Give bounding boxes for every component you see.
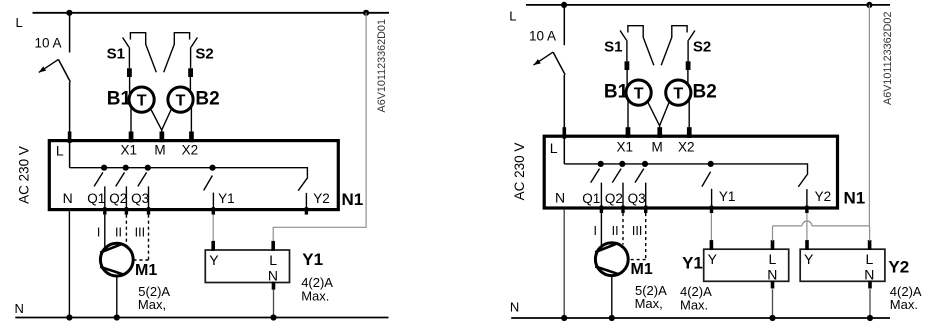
relay contact Y1 blade (right) [702, 172, 711, 187]
relay contact Q2 fixed (right) [622, 183, 624, 208]
node L-switch junction (right) [561, 2, 567, 8]
wire N of N1 to N rail (left) [68, 211, 70, 317]
wire B1 to M [648, 102, 660, 129]
relay contact Q3 blade (left) [138, 172, 147, 186]
svg-text:N: N [268, 267, 278, 283]
wire actuator Y1 N to N rail (left) [273, 289, 275, 318]
svg-text:A6V101123362D01: A6V101123362D01 [376, 19, 388, 112]
relay contact Q1 blade (left) [94, 172, 103, 186]
node Q3 bus junction (right) [642, 161, 648, 167]
svg-text:Y1: Y1 [719, 189, 736, 204]
svg-text:S2: S2 [693, 39, 711, 56]
terminal Q3 (left) [147, 207, 150, 214]
wire B2 to X2 [190, 106, 192, 133]
svg-text:Y1: Y1 [302, 250, 323, 269]
svg-text:L: L [509, 8, 516, 23]
svg-text:M1: M1 [631, 261, 653, 278]
node N-N1 junction (left) [66, 314, 72, 320]
node N-N1 junction (right) [561, 315, 567, 321]
terminal N of Y2 (right) [868, 281, 872, 289]
node N-actuator junction (left) [270, 314, 276, 320]
svg-text:T: T [673, 85, 683, 102]
terminal N of Y1 (right) [771, 281, 775, 289]
svg-text:L: L [769, 251, 777, 267]
pump M1 impeller chord upper (left) [100, 244, 121, 252]
terminal L of N1 [563, 127, 567, 139]
terminal S2 [686, 61, 691, 70]
switch S2 fixed contact [661, 26, 687, 65]
svg-text:I: I [97, 225, 100, 239]
wire switch to N1 L terminal (right) [563, 75, 565, 164]
switch S2 fixed contact [164, 33, 190, 72]
svg-text:N1: N1 [844, 189, 866, 208]
wire Q2 to pump M1 dashed (right) [622, 213, 624, 245]
wire pump M1 to N rail (left) [116, 276, 118, 318]
svg-text:T: T [176, 92, 186, 109]
svg-text:AC 230 V: AC 230 V [16, 146, 31, 204]
terminal Q1 (left) [103, 207, 106, 214]
svg-text:N: N [864, 266, 874, 282]
switch S2 blade [191, 38, 197, 48]
wire switch to N1 L terminal (left) [69, 82, 71, 168]
wire L rail to actuator Y1 L (left) [273, 13, 366, 241]
pump M1 impeller chord lower (right) [595, 266, 617, 273]
actuator box Y1 (left) [205, 250, 289, 283]
svg-text:B2: B2 [195, 88, 219, 109]
svg-text:Y2: Y2 [888, 258, 909, 277]
wire switch drop (left) [69, 13, 71, 53]
actuator box Y2 (right) [800, 249, 885, 281]
svg-text:N: N [510, 300, 519, 315]
wire B2 to M [660, 102, 670, 126]
terminal Q2 (left) [125, 207, 128, 214]
wire N of N1 to N rail (right) [563, 210, 565, 318]
wire B1 to X1 [627, 99, 629, 129]
controller N1 box (right) [544, 136, 837, 208]
wire B1 to X1 [130, 106, 132, 133]
relay contact Y2 blade (left) [298, 178, 307, 190]
svg-text:B1: B1 [604, 81, 629, 102]
svg-text:S2: S2 [195, 46, 213, 63]
wire S2 to B2 [687, 70, 689, 86]
svg-text:B2: B2 [693, 81, 717, 102]
svg-text:Y: Y [804, 251, 814, 267]
relay contact Q1 fixed (left) [104, 186, 106, 209]
svg-text:S1: S1 [107, 46, 125, 63]
svg-text:Y2: Y2 [815, 189, 832, 204]
wire internal L bus (left) [70, 168, 308, 179]
wire Q2 to pump M1 dashed (left) [125, 215, 127, 245]
svg-text:L: L [866, 251, 874, 267]
node N-actuator Y1 junction (right) [769, 315, 775, 321]
svg-text:Q1: Q1 [87, 191, 105, 206]
terminal X1 [129, 132, 134, 143]
wire crossover hop (right) [802, 221, 812, 226]
terminal Y of Y1 (right) [710, 240, 714, 250]
wire N1 Y1 terminal to actuator Y1 (left) [212, 215, 214, 242]
wire Q3 to pump M1 dashed (right) [645, 213, 647, 260]
relay contact Y2 blade (right) [798, 175, 807, 187]
node Q1 bus junction (left) [101, 165, 107, 171]
svg-text:L: L [269, 252, 277, 268]
terminal X2 [189, 132, 194, 143]
node N-pump junction (right) [609, 315, 615, 321]
relay contact Q2 blade (right) [612, 169, 621, 183]
sensor B2 [666, 80, 691, 105]
svg-text:N: N [15, 301, 24, 316]
switch S1 common leg [626, 40, 628, 61]
relay contact Y1 fixed (right) [711, 189, 713, 208]
wire actuator Y1 N to N rail (right) [772, 289, 774, 318]
node L-switch junction (left) [66, 10, 72, 16]
switch S2 common leg [190, 47, 192, 68]
svg-text:X2: X2 [678, 140, 695, 155]
pump M1 impeller chord lower (left) [100, 267, 122, 274]
terminal Y2 of N1 (left) [305, 207, 308, 214]
svg-text:Q2: Q2 [109, 191, 127, 206]
wire internal L bus (right) [564, 164, 807, 175]
svg-text:Max.: Max. [890, 297, 918, 312]
svg-text:AC 230 V: AC 230 V [512, 143, 527, 201]
svg-text:Y2: Y2 [313, 191, 330, 206]
sensor B1 [129, 87, 154, 112]
pump M1 impeller chord upper (right) [595, 244, 616, 252]
svg-text:10 A: 10 A [529, 29, 556, 44]
wire N rail (left) [15, 317, 388, 319]
pump M1 (right) [595, 243, 628, 276]
sensor B2 [168, 87, 193, 112]
wire N1 Y2 terminal to actuator Y2 (right) [806, 213, 808, 241]
terminal Q1 (right) [600, 206, 603, 213]
wire L rail (left) [33, 12, 390, 14]
controller N1 box (left) [49, 141, 338, 210]
terminal M [160, 132, 165, 143]
relay contact Y1 fixed (left) [212, 193, 214, 210]
relay contact Q2 blade (left) [116, 172, 125, 186]
wire B2 to M [162, 109, 172, 131]
terminal L of N1 [68, 132, 72, 144]
svg-text:Max.: Max. [301, 289, 329, 304]
sensor B1 [626, 80, 651, 105]
switch Q0 actuator arrow (right) [534, 52, 554, 65]
svg-text:Q1: Q1 [582, 191, 600, 206]
svg-text:M: M [652, 140, 663, 155]
svg-text:Q3: Q3 [628, 191, 646, 206]
node N-actuator Y2 junction (right) [867, 315, 873, 321]
terminal Q3 (right) [644, 206, 647, 213]
switch S1 blade [620, 31, 626, 41]
svg-text:L: L [16, 15, 23, 30]
relay contact Q3 fixed (right) [645, 183, 647, 208]
terminal Y1 of N1 (right) [710, 206, 713, 213]
terminal Y2 of N1 (right) [805, 206, 808, 213]
node L-actuator junction (left) [363, 10, 369, 16]
svg-text:I: I [594, 224, 597, 238]
svg-text:Max.: Max. [680, 298, 708, 313]
svg-text:Y: Y [708, 251, 718, 267]
wire N1 Y1 terminal to actuator Y1 (right) [710, 213, 712, 241]
svg-text:X1: X1 [121, 142, 138, 157]
svg-text:Y: Y [209, 252, 219, 268]
svg-text:M: M [154, 142, 165, 157]
wire S2 to B2 [189, 77, 191, 93]
svg-text:M1: M1 [135, 262, 157, 279]
relay contact Q3 fixed (left) [148, 186, 150, 209]
wire actuator Y2 N to N rail (right) [869, 289, 871, 318]
switch S2 blade [689, 31, 695, 41]
switch S1 blade [123, 38, 129, 48]
actuator box Y1 (right) [704, 249, 789, 281]
svg-text:III: III [632, 224, 642, 238]
relay contact Y2 fixed (left) [305, 193, 307, 210]
terminal Q2 (right) [621, 206, 624, 213]
svg-text:X1: X1 [617, 140, 634, 155]
svg-text:Y1: Y1 [682, 254, 703, 273]
svg-text:L: L [56, 143, 64, 159]
svg-text:T: T [137, 92, 147, 109]
terminal X2 [687, 127, 692, 138]
node Q2 bus junction (left) [123, 165, 129, 171]
relay contact Q2 fixed (left) [125, 186, 127, 209]
node Y1 bus junction (left) [209, 165, 215, 171]
node L-actuator junction (right) [866, 2, 872, 8]
wire switch drop (right) [563, 5, 565, 45]
terminal Y of Y2 (right) [805, 240, 809, 250]
svg-text:N: N [63, 190, 73, 206]
terminal L of Y1 (left) [271, 241, 275, 251]
svg-text:Y1: Y1 [218, 191, 235, 206]
node Y1 bus junction (right) [708, 161, 714, 167]
wire Q1 to pump M1 (right) [600, 213, 602, 247]
terminal S1 [625, 61, 630, 70]
wire S1 to B1 [626, 70, 628, 86]
wire L rail (right) [526, 4, 890, 6]
terminal Y1 of N1 (left) [212, 207, 215, 214]
svg-text:N: N [767, 266, 777, 282]
svg-text:III: III [135, 225, 145, 239]
wire pump M1 to N rail (right) [611, 276, 613, 318]
node Q3 bus junction (left) [145, 165, 151, 171]
switch S1 fixed contact [628, 26, 654, 65]
terminal Y of Y1 (left) [211, 241, 215, 251]
wire Q1 to pump M1 (left) [104, 215, 106, 247]
svg-text:T: T [634, 85, 644, 102]
node N-pump junction (left) [114, 314, 120, 320]
svg-text:N: N [555, 190, 565, 206]
svg-text:Q2: Q2 [605, 191, 623, 206]
svg-text:10 A: 10 A [35, 35, 62, 50]
terminal L of Y2 (right) [868, 240, 872, 250]
terminal M [657, 127, 662, 138]
svg-text:Max,: Max, [138, 297, 166, 312]
svg-text:II: II [612, 224, 619, 238]
pump M1 (left) [100, 243, 133, 276]
svg-text:II: II [115, 225, 122, 239]
terminal L of Y1 (right) [771, 240, 775, 250]
svg-text:L: L [550, 140, 558, 156]
relay contact Q1 fixed (right) [600, 183, 602, 208]
svg-text:A6V101123362D02: A6V101123362D02 [882, 12, 894, 105]
switch S1 fixed contact [130, 33, 156, 72]
wire L rail to actuators (right) [868, 5, 870, 226]
wire N rail (right) [511, 317, 890, 319]
switch S1 common leg [128, 47, 130, 68]
wire S1 to B1 [129, 77, 131, 93]
switch Q0 blade (right) [553, 52, 565, 75]
svg-text:Max,: Max, [635, 296, 663, 311]
relay contact Q3 blade (right) [635, 169, 644, 183]
node Q2 bus junction (right) [619, 161, 625, 167]
terminal S1 [127, 68, 132, 77]
terminal N of Y1 (left) [272, 282, 276, 290]
svg-text:Q3: Q3 [131, 191, 149, 206]
node Q1 bus junction (right) [598, 161, 604, 167]
relay contact Y1 blade (left) [204, 176, 213, 191]
terminal S2 [188, 68, 193, 77]
svg-text:X2: X2 [182, 142, 199, 157]
svg-text:B1: B1 [107, 88, 132, 109]
relay contact Q1 blade (right) [591, 169, 600, 183]
relay contact Y2 fixed (right) [806, 189, 808, 208]
svg-text:S1: S1 [604, 39, 622, 56]
terminal X1 [626, 127, 631, 138]
svg-text:N1: N1 [342, 190, 364, 209]
wire Q3 to pump M1 dashed (left) [148, 215, 150, 260]
wire B2 to X2 [688, 99, 690, 129]
wire B1 to M [151, 109, 162, 133]
switch Q0 blade (left) [58, 59, 70, 82]
switch Q0 actuator arrow (left) [39, 59, 59, 72]
switch S2 common leg [687, 40, 689, 61]
